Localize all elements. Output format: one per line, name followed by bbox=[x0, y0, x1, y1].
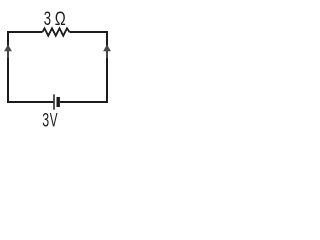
wire top-left segment bbox=[8, 31, 43, 33]
svg-text:3: 3 bbox=[42, 110, 49, 132]
wire bottom-right segment bbox=[60, 101, 107, 103]
wire bottom-left segment bbox=[8, 101, 53, 103]
svg-text:3: 3 bbox=[44, 8, 51, 30]
battery B1 negative plate (thick short) bbox=[57, 97, 60, 107]
wire left side bbox=[7, 31, 9, 103]
wire top-right segment bbox=[70, 31, 108, 33]
battery B1 positive plate (thin long) bbox=[53, 94, 55, 109]
current arrow right (up) bbox=[103, 44, 111, 58]
circuit schematic: 3V battery with 3-ohm resistor loop bbox=[0, 0, 115, 132]
wire right side bbox=[106, 31, 108, 103]
resistor R1 zigzag bbox=[43, 28, 70, 35]
svg-text:V: V bbox=[50, 110, 58, 132]
svg-text:Ω: Ω bbox=[55, 8, 66, 30]
current arrow left (up) bbox=[4, 44, 12, 58]
